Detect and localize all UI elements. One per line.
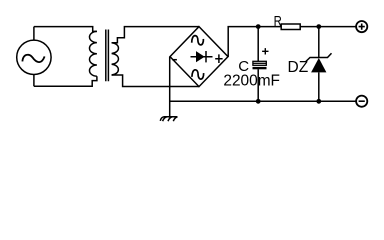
svg-text:R: R bbox=[274, 13, 282, 30]
svg-text:DZ: DZ bbox=[288, 59, 309, 76]
svg-text:2200mF: 2200mF bbox=[223, 73, 280, 90]
